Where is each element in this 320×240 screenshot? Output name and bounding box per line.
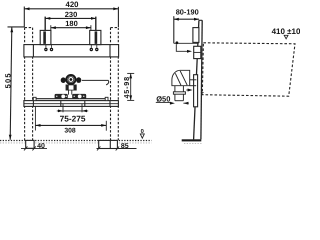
dim 45-98 [127, 73, 134, 100]
crossbar end posts [33, 97, 108, 100]
dim 85 [97, 147, 137, 151]
left threaded rod [44, 17, 46, 31]
zero level marker [140, 134, 144, 138]
dim 180 [51, 25, 91, 30]
svg-text:308: 308 [64, 127, 76, 134]
rail stub line [201, 92, 204, 94]
ceramic bowl outline dashed [202, 43, 295, 96]
frame clamp block [194, 46, 201, 58]
side frame rail [194, 20, 203, 139]
lower crossbar [24, 101, 119, 107]
connection arrow [186, 89, 192, 92]
drain clamp holder [194, 75, 198, 107]
clamp rail [35, 98, 107, 100]
right foot [99, 140, 118, 148]
dim 505 [8, 27, 25, 140]
svg-text:230: 230 [65, 10, 78, 19]
fitting collar [66, 85, 76, 90]
frame right upright dashed [111, 28, 119, 141]
dim 420 [24, 7, 118, 28]
right hanger bracket [90, 30, 101, 44]
left hanger bracket [40, 30, 51, 44]
dim 230 [45, 17, 96, 20]
svg-text:40: 40 [37, 143, 45, 150]
frame left upright dashed [25, 28, 33, 141]
right threaded rod [95, 17, 97, 31]
dim 308 [35, 107, 106, 131]
svg-text:505: 505 [3, 72, 12, 88]
svg-text:410 ±10: 410 ±10 [272, 27, 300, 36]
pipe clamp row [55, 94, 87, 99]
svg-text:80-190: 80-190 [176, 8, 199, 17]
svg-text:0: 0 [141, 128, 144, 135]
supply pipe line [82, 80, 109, 85]
drain pipe down [173, 86, 185, 101]
drain bend [172, 70, 197, 85]
svg-text:75-275: 75-275 [60, 114, 86, 124]
dim 75-275 [57, 104, 88, 113]
svg-text:180: 180 [65, 19, 78, 28]
rim level marker [284, 35, 288, 39]
dim 80-190 [174, 16, 199, 43]
svg-text:85: 85 [121, 143, 129, 150]
fixing bolts [44, 48, 98, 51]
wall anchor plate [193, 28, 199, 43]
svg-text:Ø50: Ø50 [156, 94, 170, 103]
svg-text:420: 420 [65, 0, 79, 9]
side foot plate [182, 139, 202, 141]
top mounting rail [24, 45, 119, 57]
water fitting [61, 75, 82, 84]
svg-text:45-98: 45-98 [122, 76, 131, 98]
left foot [26, 140, 34, 148]
anchor rod [174, 41, 199, 52]
dim diameter 50 [156, 102, 189, 105]
drain pipe stub [69, 90, 72, 95]
screed level faint line [0, 142, 152, 144]
floor level line [0, 140, 152, 142]
dim 40 [21, 146, 47, 150]
